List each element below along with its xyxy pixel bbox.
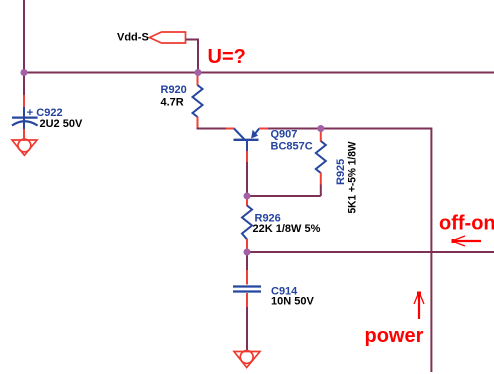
pin: R925 top pin (320, 130, 322, 142)
pin: Q907 emitter pin (259, 128, 269, 130)
svg-text:R920: R920 (161, 84, 187, 96)
node: junction dot emitter / R925 (317, 125, 324, 132)
resistor R920 zigzag (193, 85, 203, 117)
svg-text:U=?: U=? (208, 46, 246, 68)
wire: left vertical from top edge down to C922 (23, 0, 25, 96)
pin: R920 bottom pin (197, 117, 199, 129)
svg-text:22K 1/8W 5%: 22K 1/8W 5% (253, 223, 321, 235)
svg-text:Vdd-S: Vdd-S (117, 32, 149, 44)
svg-text:Q907: Q907 (271, 128, 298, 140)
wire: off-on node down to C914 (246, 253, 248, 271)
pin: R925 bottom pin (320, 173, 322, 186)
pin: C922 top pin (red) (23, 95, 25, 107)
capacitor C922 lead (blue, through plates) (23, 107, 25, 130)
svg-text:2U2 50V: 2U2 50V (40, 118, 83, 130)
pin: C922 bottom pin (red) (23, 129, 25, 140)
pin: R926 bottom pin (246, 239, 248, 251)
svg-text:5K1 +-5% 1/8W: 5K1 +-5% 1/8W (347, 141, 359, 214)
pin: C914 bottom pin (246, 293, 248, 308)
resistor R926 zigzag (242, 206, 252, 240)
wire: emitter junction to right vertical power line (321, 128, 432, 130)
pin: R920 top pin (197, 74, 199, 86)
pin: Q907 collector pin (226, 128, 235, 130)
svg-text:BC857C: BC857C (271, 140, 313, 152)
wire: C914 bottom to ground (246, 307, 248, 352)
power symbol Vdd-S tag outline (150, 32, 186, 43)
capacitor C922 top plate (12, 116, 38, 118)
node: junction dot at left rail / C922 (21, 69, 28, 76)
ground symbol below C914 (234, 351, 260, 368)
wire: Q907 base down to base node (246, 161, 248, 196)
annotation arrow up (power) (414, 292, 424, 320)
capacitor C914 bottom plate (233, 290, 261, 292)
wire: base node horizontal to R925 (247, 195, 321, 197)
svg-text:R925: R925 (335, 159, 347, 185)
annotation arrow left (off-on) (452, 236, 482, 246)
transistor Q907 collector diagonal (234, 129, 245, 140)
node: junction dot base node (244, 193, 251, 200)
capacitor C922 bottom plate (arc) (12, 121, 38, 125)
pin: R926 top pin (246, 197, 248, 206)
svg-text:10N 50V: 10N 50V (271, 295, 314, 307)
wire: R925 bottom to base node wire (320, 185, 322, 197)
ground symbol below C922 (12, 139, 37, 155)
wire: top Vdd rail horizontal (24, 72, 494, 74)
wire: Vdd-S tag to rail (186, 40, 198, 73)
svg-text:off-on: off-on (439, 213, 494, 235)
capacitor C914 top plate (233, 285, 261, 287)
svg-text:power: power (365, 325, 424, 347)
node: junction dot at rail / R920 / Vdd-S tag (195, 69, 202, 76)
transistor Q907 emitter diagonal with arrow (252, 129, 260, 138)
wire: right vertical power line (430, 128, 432, 373)
pin: C914 top pin (246, 270, 248, 285)
wire: R920 bottom to Q907 collector (198, 128, 227, 129)
node: junction dot off-on node (244, 249, 251, 256)
transistor Q907 base lead (blue) (246, 140, 248, 152)
wire: Q907 emitter to R925 junction and right (268, 128, 321, 130)
pin: Q907 base pin (246, 151, 248, 162)
svg-text:4.7R: 4.7R (161, 96, 184, 108)
transistor Q907 base bar (234, 139, 259, 141)
resistor R925 zigzag (316, 141, 326, 173)
wire: off-on horizontal line to right edge (247, 251, 494, 253)
